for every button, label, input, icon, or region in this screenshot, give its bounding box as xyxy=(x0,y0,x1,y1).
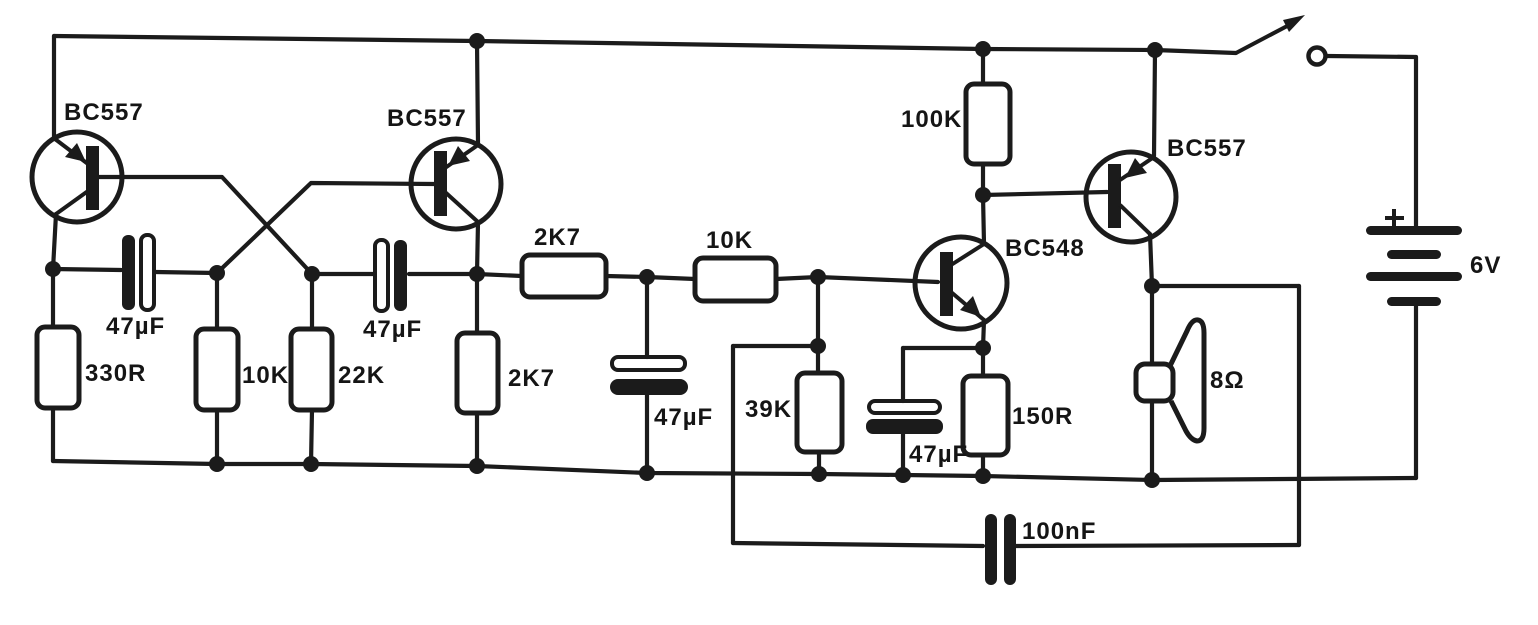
svg-text:BC557: BC557 xyxy=(387,105,467,132)
capacitor C3 47uF xyxy=(610,357,688,395)
wire 100nF loop left side down xyxy=(731,346,735,543)
svg-text:22K: 22K xyxy=(338,362,385,389)
wire 100nF loop right side up xyxy=(1297,286,1301,545)
wire 100K top to supply bus xyxy=(981,49,985,84)
svg-text:100K: 100K xyxy=(901,106,962,133)
svg-text:2K7: 2K7 xyxy=(534,224,581,251)
wire 22K bottom to ground bus xyxy=(311,410,312,464)
wire Q4 emitter rail to top bus xyxy=(1154,50,1155,156)
wire loop top to node K xyxy=(1152,284,1299,288)
speaker LS1 xyxy=(1136,320,1204,441)
capacitor C4 47uF xyxy=(866,401,943,434)
node F xyxy=(810,269,826,285)
resistor R2 10K xyxy=(196,329,238,410)
node K xyxy=(1144,278,1160,294)
node top bus 100K xyxy=(975,41,991,57)
wire Q4 base to node H xyxy=(983,192,1107,195)
wire 39K bottom to ground bus xyxy=(817,452,821,474)
wire 10K bottom to ground bus xyxy=(215,410,219,464)
resistor R4 2K7 vertical xyxy=(457,333,498,413)
svg-text:6V: 6V xyxy=(1470,252,1501,279)
resistor R9 150R xyxy=(963,376,1008,455)
capacitor C5 100nF xyxy=(985,514,1016,585)
wire node F to Q3 base xyxy=(818,277,938,282)
wire 330R bottom to ground bus corner xyxy=(51,408,55,461)
battery B1 6V xyxy=(1366,226,1462,306)
node top bus Q4 xyxy=(1147,42,1163,58)
wire speaker bottom to ground bus xyxy=(1150,401,1154,480)
wire Q3 emitter down to node I xyxy=(983,320,984,348)
wire battery negative to ground bus xyxy=(1414,306,1418,478)
wire 100nF loop bottom right segment xyxy=(1013,545,1299,546)
node I xyxy=(975,340,991,356)
wire Q2 emitter rail to top bus xyxy=(477,41,478,144)
svg-text:150R: 150R xyxy=(1012,403,1073,430)
wire bottom ground bus xyxy=(53,461,1416,480)
wire node H up to 100K xyxy=(981,164,985,195)
wire 2K7 bottom to ground bus xyxy=(475,413,479,466)
transistor Q2 BC557 xyxy=(411,139,501,229)
node ground 10K xyxy=(209,456,225,472)
node H xyxy=(975,187,991,203)
resistor R1 330R xyxy=(37,327,79,408)
wire node A to C1 left plate xyxy=(53,269,121,270)
resistor R3 22K xyxy=(291,329,332,410)
node top bus Q2 xyxy=(469,33,485,49)
wire node F down to node G xyxy=(816,277,820,346)
wire Q4 collector down to node K xyxy=(1150,234,1152,286)
wire top supply bus xyxy=(54,36,1236,53)
node D xyxy=(469,266,485,282)
svg-text:BC557: BC557 xyxy=(64,99,144,126)
transistor Q3 BC548 xyxy=(915,237,1007,329)
node A xyxy=(45,261,61,277)
svg-text:47µF: 47µF xyxy=(363,316,422,343)
transistor Q4 BC557 xyxy=(1086,152,1176,242)
svg-text:47µF: 47µF xyxy=(909,441,968,468)
node ground 2K7 xyxy=(469,458,485,474)
resistor R7 100K xyxy=(966,84,1010,164)
wire left rail Q1 emitter to top bus xyxy=(52,36,56,139)
wire node K down to speaker xyxy=(1150,286,1154,364)
wire 150R bottom to ground bus xyxy=(981,455,985,476)
wire Q1 base with diagonal to node C xyxy=(99,177,312,274)
wire C1 right plate to node B xyxy=(155,272,217,273)
capacitor C2 47uF xyxy=(375,240,407,311)
node C xyxy=(304,266,320,282)
wire node D down to 2K7 resistor xyxy=(475,274,479,333)
wire C3 bottom to ground bus xyxy=(645,395,649,473)
svg-text:47µF: 47µF xyxy=(654,404,713,431)
wire node I down to 150R xyxy=(981,348,985,376)
wire node G left to 100nF loop xyxy=(733,344,818,348)
wire node C down to 22K resistor xyxy=(310,274,314,329)
resistor R5 2K7 horizontal xyxy=(522,255,606,297)
wire node B down to 10K resistor xyxy=(215,273,219,329)
node ground 22K xyxy=(303,456,319,472)
wire C4 top stub xyxy=(901,348,905,401)
switch SW1 xyxy=(1236,15,1326,65)
wire switch to battery positive xyxy=(1327,56,1416,227)
svg-text:330R: 330R xyxy=(85,360,146,387)
wire node A down to 330R xyxy=(51,269,55,327)
svg-text:2K7: 2K7 xyxy=(508,365,555,392)
node ground C4 xyxy=(895,467,911,483)
node ground speaker xyxy=(1144,472,1160,488)
wire node I left to C4 xyxy=(903,346,983,350)
svg-text:47µF: 47µF xyxy=(106,313,165,340)
resistor R8 39K xyxy=(797,373,842,452)
wire node G down to 39K xyxy=(816,346,820,373)
node G xyxy=(810,338,826,354)
svg-text:39K: 39K xyxy=(745,396,792,423)
transistor Q1 BC557 xyxy=(32,132,122,222)
wire Q2 base with diagonal to node B xyxy=(217,183,434,273)
svg-text:100nF: 100nF xyxy=(1022,518,1096,545)
svg-text:BC557: BC557 xyxy=(1167,135,1247,162)
label battery plus xyxy=(1385,209,1404,228)
node ground 39K xyxy=(811,466,827,482)
wire 100nF loop bottom left segment xyxy=(733,543,983,546)
wire node D to R5 2K7 xyxy=(477,274,522,276)
node B xyxy=(209,265,225,281)
wire node E down to C3 xyxy=(645,277,649,357)
svg-text:BC548: BC548 xyxy=(1005,235,1085,262)
wire R6 to node F xyxy=(776,277,818,279)
svg-text:10K: 10K xyxy=(706,227,753,254)
wire R5 to node E xyxy=(606,276,647,277)
node ground C3 xyxy=(639,465,655,481)
wire node C to C2 left plate xyxy=(312,272,373,276)
node ground 150R xyxy=(975,468,991,484)
wire Q2 collector down to node D xyxy=(477,222,478,274)
wire C4 bottom to ground bus xyxy=(901,433,905,475)
wire node E to R6 10K xyxy=(647,277,695,279)
wire Q1 collector down to node A xyxy=(53,214,56,269)
wire C2 right plate to node D xyxy=(409,272,477,276)
svg-text:8Ω: 8Ω xyxy=(1210,367,1245,394)
svg-text:10K: 10K xyxy=(242,362,289,389)
resistor R6 10K horizontal xyxy=(695,258,776,301)
capacitor C1 47uF xyxy=(122,235,154,310)
node E xyxy=(639,269,655,285)
wire Q3 collector up to node H xyxy=(983,195,984,244)
